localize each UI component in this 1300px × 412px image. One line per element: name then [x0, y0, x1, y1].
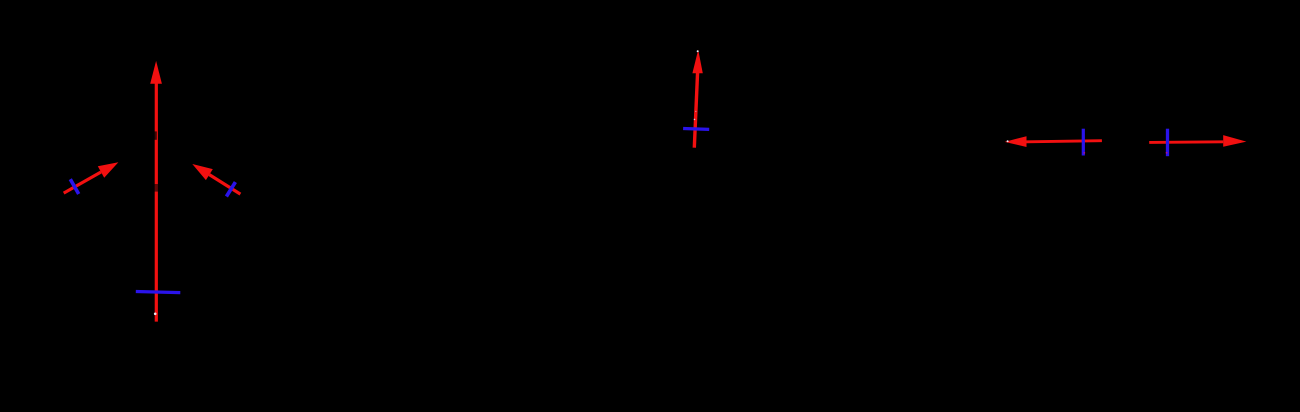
vector f (right FBD, arrow pointing left) — [1005, 136, 1102, 147]
tick on N (blue) — [683, 127, 709, 131]
blue crossbar (left FBD) — [136, 292, 181, 293]
tick on F (blue) — [1166, 129, 1169, 157]
magenta speck at tick 2 bottom — [1166, 152, 1168, 154]
white speck on middle shaft — [694, 119, 696, 121]
tick on f (blue) — [1082, 129, 1085, 156]
magenta speck at tick bottom — [1083, 152, 1085, 154]
vector N (middle FBD, vertical red arrow up) — [692, 50, 702, 148]
vector F2 (left FBD, diagonal arrow up-left) — [192, 164, 240, 194]
vector T (left FBD, vertical red arrow up) — [150, 61, 162, 322]
vector F1 (left FBD, diagonal arrow up-right) — [64, 162, 119, 193]
tick on F2 (blue) — [226, 182, 235, 196]
white tip dot (middle FBD) — [697, 50, 699, 52]
white dot near left-arrow tip — [1007, 140, 1009, 142]
white node dot (left FBD) — [154, 313, 157, 316]
vector F (right FBD, arrow pointing right) — [1149, 135, 1246, 147]
label overlap notch 2 on vertical arrow — [152, 184, 158, 192]
white speck 2 on middle shaft — [695, 111, 696, 112]
label overlap notch 1 on vertical arrow — [152, 131, 157, 139]
tick on F1 (blue) — [70, 179, 78, 194]
